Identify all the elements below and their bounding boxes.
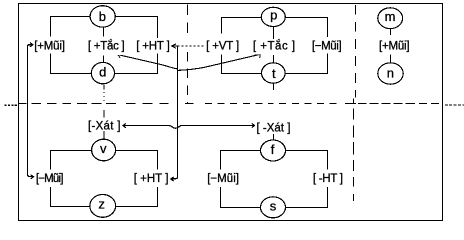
svg-text:[ +HT ]: [ +HT ] xyxy=(136,41,170,53)
svg-text:[ +HT ]: [ +HT ] xyxy=(134,173,169,185)
svg-text:z: z xyxy=(98,197,105,212)
svg-text:m: m xyxy=(385,9,396,24)
svg-text:s: s xyxy=(270,199,277,214)
svg-text:[ -Xát ]: [ -Xát ] xyxy=(257,122,291,134)
svg-text:[−Mũi]: [−Mũi] xyxy=(36,173,64,185)
svg-text:[-Xát ]: [-Xát ] xyxy=(88,121,120,133)
svg-text:[−Mũi]: [−Mũi] xyxy=(312,41,342,53)
svg-text:p: p xyxy=(270,8,277,23)
svg-text:[ +Tắc ]: [ +Tắc ] xyxy=(253,40,295,53)
svg-text:n: n xyxy=(387,65,394,80)
svg-text:[ -HT ]: [ -HT ] xyxy=(313,173,343,185)
svg-text:[ +Tắc ]: [ +Tắc ] xyxy=(88,40,125,53)
svg-text:[+Mũi]: [+Mũi] xyxy=(379,41,410,53)
svg-text:d: d xyxy=(99,65,106,80)
svg-text:[−Mũi]: [−Mũi] xyxy=(207,173,239,185)
svg-text:[ +VT ]: [ +VT ] xyxy=(206,41,239,53)
svg-text:v: v xyxy=(100,141,107,156)
svg-text:[+Mũi]: [+Mũi] xyxy=(34,41,65,53)
svg-text:t: t xyxy=(272,66,276,81)
svg-text:f: f xyxy=(271,142,275,157)
svg-text:b: b xyxy=(99,9,106,24)
